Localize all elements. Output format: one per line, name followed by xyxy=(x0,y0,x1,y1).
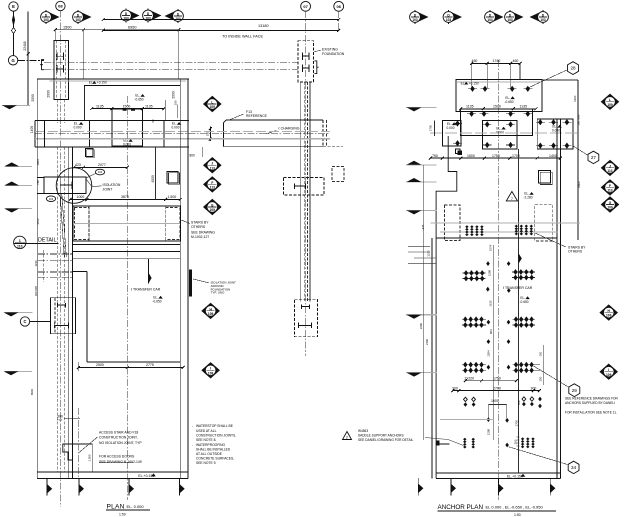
hexagon 28 xyxy=(568,62,579,75)
dim 1000 3878 1000 xyxy=(70,199,180,201)
svg-text:1484: 1484 xyxy=(36,159,40,166)
svg-text:M-1002-127: M-1002-127 xyxy=(191,235,209,239)
dim 2500 2775 xyxy=(78,367,183,369)
svg-text:1500: 1500 xyxy=(123,104,131,108)
dim 800 xyxy=(201,147,203,157)
svg-text:FOR ACCESS DOORS: FOR ACCESS DOORS xyxy=(99,455,135,459)
svg-text:-0.650: -0.650 xyxy=(504,100,513,104)
svg-text:423: 423 xyxy=(75,163,81,167)
rail bracket left xyxy=(40,60,44,70)
svg-text:109: 109 xyxy=(606,373,612,377)
svg-text:190: 190 xyxy=(174,100,178,105)
svg-text:AT ALL OUTSIDE: AT ALL OUTSIDE xyxy=(196,452,223,456)
margin flag y105 xyxy=(2,104,30,106)
right plan centerline xyxy=(497,60,499,500)
svg-text:OTHERS: OTHERS xyxy=(568,250,583,254)
pier square b xyxy=(167,172,178,184)
left inner wall xyxy=(68,147,70,478)
left plan top edge xyxy=(37,78,189,80)
svg-text:150: 150 xyxy=(538,351,542,356)
svg-text:EL. 0.000: EL. 0.000 xyxy=(127,504,145,509)
dim 1260 right xyxy=(542,79,578,81)
svg-text:1230: 1230 xyxy=(34,260,38,267)
right plan top rect xyxy=(456,79,542,111)
svg-text:1:50: 1:50 xyxy=(119,512,126,516)
svg-text:WATERSTOP SHALL BE: WATERSTOP SHALL BE xyxy=(196,424,234,428)
text EXISTING FOUNDATION xyxy=(314,50,321,52)
section markers left plan xyxy=(47,11,60,23)
svg-text:SHALL BE INSTALLED: SHALL BE INSTALLED xyxy=(196,447,231,451)
anchor pairs small right xyxy=(522,397,526,401)
beam bottom dashed continuation xyxy=(323,146,343,148)
bottom wall xyxy=(37,471,188,473)
svg-text:EL.: EL. xyxy=(461,82,466,86)
grid circle C xyxy=(20,317,29,326)
svg-text:1740: 1740 xyxy=(493,59,501,63)
svg-text:1288: 1288 xyxy=(487,428,491,435)
svg-text:REFERENCE: REFERENCE xyxy=(246,114,268,118)
gray level band xyxy=(35,131,330,133)
svg-text:103: 103 xyxy=(507,18,513,22)
right plan margin flags xyxy=(406,106,436,108)
dim 750 1500 1750 1700 1400 xyxy=(430,157,560,159)
svg-text:1000: 1000 xyxy=(77,195,85,199)
anchor cluster bottom right xyxy=(521,437,524,440)
svg-text:07: 07 xyxy=(303,4,308,9)
middle pier square xyxy=(112,109,142,146)
svg-text:2077: 2077 xyxy=(98,163,106,167)
svg-text:3878: 3878 xyxy=(121,195,129,199)
warning triangle 7 xyxy=(506,192,517,201)
dashed pit row xyxy=(73,206,181,241)
margin dim chain right plan xyxy=(423,165,425,440)
taper slant lines xyxy=(62,194,67,257)
access stair marks xyxy=(64,418,80,420)
svg-text:113: 113 xyxy=(607,189,612,193)
box edge extensions xyxy=(37,176,44,178)
svg-text:1260: 1260 xyxy=(573,95,577,102)
svg-text:1500: 1500 xyxy=(63,25,71,29)
svg-text:3152: 3152 xyxy=(36,218,40,225)
left pier block xyxy=(89,121,91,147)
svg-text:788: 788 xyxy=(36,180,40,185)
svg-text:0.000: 0.000 xyxy=(552,128,560,132)
single anchors bottom mid xyxy=(505,418,509,423)
warning triangle 2 note xyxy=(343,432,352,440)
svg-text:27: 27 xyxy=(591,155,597,160)
svg-text:2000: 2000 xyxy=(31,94,35,102)
small pier square a xyxy=(86,149,94,157)
column strip dashed down xyxy=(57,147,59,472)
svg-text:103: 103 xyxy=(540,18,546,22)
svg-text:STAIRS BY: STAIRS BY xyxy=(191,221,209,225)
band vertical x44.5 xyxy=(44,121,46,147)
svg-text:800: 800 xyxy=(190,154,196,158)
anchor cluster row2 left xyxy=(463,272,486,274)
anchor cluster row4 left xyxy=(462,364,486,366)
corner stub rect xyxy=(436,440,439,445)
svg-text:SADDLE SUPPORT ANCHORS: SADDLE SUPPORT ANCHORS xyxy=(358,434,404,438)
svg-text:2190: 2190 xyxy=(425,338,429,345)
DETAIL circle 1/110 xyxy=(14,236,26,248)
svg-text:890: 890 xyxy=(577,114,581,119)
dim line 2 (inside wall face) xyxy=(103,29,338,31)
dim 13180 xyxy=(103,19,338,21)
right side marker L/109 xyxy=(203,96,222,112)
dashed pits right plan xyxy=(445,205,461,241)
svg-text:1135: 1135 xyxy=(520,105,528,109)
svg-text:103: 103 xyxy=(43,18,49,22)
svg-text:103: 103 xyxy=(75,18,81,22)
svg-text:1,500: 1,500 xyxy=(88,454,92,461)
bottom flags right plan xyxy=(417,478,419,495)
svg-text:1750: 1750 xyxy=(492,154,500,158)
svg-text:USED AT ALL: USED AT ALL xyxy=(196,429,217,433)
svg-text:SEE DRAWING: SEE DRAWING xyxy=(191,231,215,235)
svg-text:NO ISOLATION JOINT, TYP: NO ISOLATION JOINT, TYP xyxy=(99,441,142,445)
right pier block xyxy=(163,121,165,147)
svg-text:06: 06 xyxy=(336,4,341,9)
I-beam symbols in column xyxy=(56,52,58,60)
svg-text:102: 102 xyxy=(98,170,103,174)
svg-text:TO INSIDE WALL FACE: TO INSIDE WALL FACE xyxy=(222,35,263,39)
dim 1000 xyxy=(488,404,506,406)
svg-text:1615: 1615 xyxy=(488,300,492,307)
marker G/109 xyxy=(203,199,222,215)
left strip outer wall xyxy=(36,79,38,479)
right wall xyxy=(179,79,181,479)
svg-text:1135: 1135 xyxy=(466,105,474,109)
svg-text:+0.150: +0.150 xyxy=(469,82,479,86)
transfer pit inner boundary xyxy=(86,271,88,362)
isolation joint box xyxy=(44,177,86,193)
svg-text:ACCESS STAIR AND F18: ACCESS STAIR AND F18 xyxy=(99,431,138,435)
svg-text:C: C xyxy=(23,319,26,324)
svg-text:FOUNDATION: FOUNDATION xyxy=(322,52,345,56)
svg-text:-0.650: -0.650 xyxy=(152,299,161,303)
svg-text:0.000: 0.000 xyxy=(172,126,180,130)
svg-text:22488: 22488 xyxy=(23,41,27,50)
anchor cluster row1 right xyxy=(515,225,518,228)
bottom flags left plan xyxy=(46,478,48,495)
svg-text:109: 109 xyxy=(606,314,612,318)
svg-text:ANCHOR PLAN: ANCHOR PLAN xyxy=(438,504,484,511)
svg-text:ℓ TRANSFER CAR: ℓ TRANSFER CAR xyxy=(131,287,161,291)
dim 2x220 1750 xyxy=(465,380,516,382)
svg-text:1700: 1700 xyxy=(429,124,433,131)
svg-text:1135: 1135 xyxy=(96,104,104,108)
right plan markers xyxy=(601,94,620,110)
dim 890 xyxy=(577,111,579,149)
bottom wall xyxy=(436,472,560,474)
middle pier square xyxy=(483,121,517,149)
vertical dim chain x493.6 xyxy=(493,245,495,440)
column top-left xyxy=(54,40,69,99)
existing foundation column xyxy=(298,41,314,82)
svg-text:FOR INSTALLATION SEE NOTE: FOR INSTALLATION SEE NOTE 11. xyxy=(565,410,617,414)
svg-text:W4563: W4563 xyxy=(358,429,368,433)
isolation joint bar xyxy=(189,270,192,297)
svg-text:110: 110 xyxy=(17,244,23,248)
anchor cluster row4 right xyxy=(513,364,541,366)
anchor cluster row2 right xyxy=(512,271,535,273)
anchor cluster row3 left xyxy=(462,318,486,320)
svg-text:750: 750 xyxy=(432,154,438,158)
beam centerline xyxy=(35,133,330,135)
svg-text:109: 109 xyxy=(210,208,216,212)
svg-text:460: 460 xyxy=(513,59,519,63)
dim 22488 xyxy=(27,12,29,106)
marker I/109 xyxy=(201,362,220,378)
dim 1500 6950 xyxy=(55,29,179,31)
dim row 1135 1500 1135 xyxy=(92,108,164,110)
foundation strip below xyxy=(300,82,302,301)
pit row second bottom line xyxy=(73,243,180,245)
svg-text:TYP, UNO: TYP, UNO xyxy=(211,291,225,295)
marker H/109 xyxy=(201,303,220,319)
rail line with arrow xyxy=(518,149,520,473)
grid circle 08 xyxy=(56,1,65,10)
left strip dashed rows xyxy=(38,253,73,255)
svg-text:PLAN: PLAN xyxy=(107,503,125,510)
svg-text:CONCRETE SURFACES,: CONCRETE SURFACES, xyxy=(196,457,234,461)
svg-text:103: 103 xyxy=(123,17,129,21)
svg-text:SEE DRAWING B-1002-149: SEE DRAWING B-1002-149 xyxy=(99,460,142,464)
stair zigzag xyxy=(63,444,73,460)
marker F/113 xyxy=(203,176,222,192)
svg-text:0.000: 0.000 xyxy=(74,126,82,130)
oval label 102 xyxy=(95,169,104,175)
svg-text:13180: 13180 xyxy=(258,24,269,28)
svg-text:1700: 1700 xyxy=(515,420,519,427)
section line E-G xyxy=(13,11,15,55)
svg-text:2500: 2500 xyxy=(96,363,104,367)
svg-text:ℓ CHARGING: ℓ CHARGING xyxy=(279,127,300,131)
grid line 08 xyxy=(59,11,61,507)
small dim cluster marks xyxy=(408,246,436,263)
svg-text:109: 109 xyxy=(208,371,214,375)
svg-text:0.000: 0.000 xyxy=(496,130,504,134)
svg-text:1135: 1135 xyxy=(145,104,153,108)
svg-text:109: 109 xyxy=(607,103,613,107)
grid circle G xyxy=(8,56,17,65)
plan centerline xyxy=(126,96,128,500)
svg-text:190: 190 xyxy=(576,120,580,125)
mid rect xyxy=(461,109,533,136)
right wall xyxy=(556,119,558,478)
svg-text:103: 103 xyxy=(446,18,452,22)
svg-text:7: 7 xyxy=(511,197,513,201)
svg-text:109: 109 xyxy=(607,206,613,210)
grid circle 06 xyxy=(334,1,344,11)
svg-text:TYP.: TYP. xyxy=(57,418,63,422)
anchors mid rect xyxy=(467,113,476,115)
dim 150 150 xyxy=(543,345,545,385)
svg-text:-0.650: -0.650 xyxy=(134,98,143,102)
dim 1000 ext xyxy=(487,405,489,419)
grid line 07 xyxy=(305,11,307,356)
svg-text:113: 113 xyxy=(210,166,215,170)
svg-text:E: E xyxy=(12,4,15,9)
small dashed box right xyxy=(332,167,344,182)
right plan left boundary zigzag xyxy=(436,136,457,478)
svg-text:8993: 8993 xyxy=(30,388,34,395)
svg-text:-2.280: -2.280 xyxy=(523,196,532,200)
svg-text:SEE REFERENCE DRAWINGS FOR: SEE REFERENCE DRAWINGS FOR xyxy=(565,396,619,400)
svg-text:2000: 2000 xyxy=(47,90,51,98)
svg-text:OTHERS: OTHERS xyxy=(191,225,206,229)
svg-text:435: 435 xyxy=(421,224,425,229)
svg-text:1574: 1574 xyxy=(488,244,492,251)
svg-text:28: 28 xyxy=(570,66,576,71)
svg-text:113: 113 xyxy=(607,169,612,173)
svg-text:29: 29 xyxy=(572,388,578,393)
svg-text:113: 113 xyxy=(210,186,215,190)
svg-text:34: 34 xyxy=(571,465,577,470)
svg-text:JOINT: JOINT xyxy=(103,187,113,191)
wire G centerline xyxy=(18,59,44,61)
column strip below xyxy=(57,99,59,123)
svg-text:6950: 6950 xyxy=(128,25,136,29)
svg-text:103: 103 xyxy=(487,18,493,22)
svg-text:2000: 2000 xyxy=(172,91,176,99)
band vertical x44.5 xyxy=(44,121,46,147)
svg-text:1400: 1400 xyxy=(549,154,557,158)
section markers right plan xyxy=(416,11,429,23)
svg-text:150: 150 xyxy=(538,376,542,381)
svg-text:08: 08 xyxy=(58,4,63,9)
svg-text:1288: 1288 xyxy=(488,269,492,276)
svg-text:1230: 1230 xyxy=(427,250,431,257)
anchor pairs small left xyxy=(464,397,468,401)
svg-text:700: 700 xyxy=(517,400,521,405)
svg-text:103: 103 xyxy=(412,18,418,22)
rail bracket right xyxy=(314,61,318,74)
foundation box low xyxy=(295,299,318,337)
svg-text:ℓ TRANSFER CAR: ℓ TRANSFER CAR xyxy=(503,286,533,290)
svg-text:1500: 1500 xyxy=(493,105,501,109)
svg-text:2775: 2775 xyxy=(146,363,154,367)
svg-text:109: 109 xyxy=(210,105,216,109)
marker J/113 xyxy=(203,157,222,173)
svg-text:300 805: 300 805 xyxy=(34,286,38,297)
svg-text:2290: 2290 xyxy=(419,322,423,329)
svg-text:SEE NOTE 9.: SEE NOTE 9. xyxy=(196,461,216,465)
svg-text:EL 0.000 , EL.-0.650 , EL.-0.: EL 0.000 , EL.-0.650 , EL.-0.950 xyxy=(486,505,544,510)
dim 190 xyxy=(209,127,211,142)
svg-text:2: 2 xyxy=(346,436,348,440)
room horizontal lines y251/259 xyxy=(73,251,181,253)
left margin flags xyxy=(5,165,32,167)
oval label 103 xyxy=(46,196,55,202)
svg-text:-0.650: -0.650 xyxy=(519,300,528,304)
svg-text:460: 460 xyxy=(472,59,478,63)
svg-text:1500: 1500 xyxy=(467,154,475,158)
big pit square xyxy=(538,171,550,183)
svg-text:+0.150: +0.150 xyxy=(97,81,107,85)
crane rail centerlines xyxy=(44,61,298,63)
svg-text:G: G xyxy=(11,58,14,63)
svg-text:ANCHORS SUPPLIED BY DANELI: ANCHORS SUPPLIED BY DANELI xyxy=(565,401,615,405)
anchor cluster bottom left xyxy=(463,438,466,441)
svg-text:DETAIL: DETAIL xyxy=(38,238,56,244)
svg-text:SEE DANIELI DRAWING FOR DE: SEE DANIELI DRAWING FOR DETAIL xyxy=(358,438,413,442)
svg-text:EL.: EL. xyxy=(89,81,94,85)
dim 460 1740 460 xyxy=(472,62,520,64)
anchor cluster row3 right xyxy=(513,318,536,320)
svg-text:SEE NOTE 8.: SEE NOTE 8. xyxy=(196,438,216,442)
grid circle 07 xyxy=(301,1,311,11)
anchor cluster row1 left xyxy=(465,225,468,228)
hexagon 27 xyxy=(588,151,599,163)
lower-left machine box xyxy=(50,298,75,334)
svg-text:103: 103 xyxy=(49,197,54,201)
svg-text:984: 984 xyxy=(489,329,493,334)
svg-text:103: 103 xyxy=(145,17,151,21)
svg-text:1400: 1400 xyxy=(30,126,34,134)
black keyway square xyxy=(458,151,463,156)
dim row 1135 1500 1135 right plan xyxy=(461,108,536,110)
dim 4500 xyxy=(155,147,157,200)
hexagon 29 xyxy=(569,384,580,397)
svg-text:CONSTRUCTION JOINT,: CONSTRUCTION JOINT, xyxy=(99,436,138,440)
right pier rect xyxy=(537,119,573,149)
svg-text:2x220: 2x220 xyxy=(465,377,475,381)
svg-text:WATERPROOFING: WATERPROOFING xyxy=(196,443,226,447)
svg-text:2700: 2700 xyxy=(493,386,501,390)
svg-text:109: 109 xyxy=(208,312,214,316)
foundation box mid xyxy=(283,178,324,196)
svg-text:0.000: 0.000 xyxy=(447,126,455,130)
svg-text:1750: 1750 xyxy=(493,377,501,381)
hexagon 34 xyxy=(568,461,579,473)
anchors top rect xyxy=(468,88,477,90)
svg-text:CONSTRUCTION JOINTS,: CONSTRUCTION JOINTS, xyxy=(196,433,236,437)
beam band left plan xyxy=(35,120,112,122)
dim 300 2700 300 xyxy=(453,390,540,392)
left pier rect xyxy=(442,120,461,146)
charging beam xyxy=(224,120,323,123)
upper room verticals xyxy=(85,86,181,121)
svg-text:1:50: 1:50 xyxy=(514,513,521,517)
detail circle xyxy=(56,168,92,204)
svg-text:1284: 1284 xyxy=(487,350,491,357)
svg-text:4500: 4500 xyxy=(151,175,155,183)
svg-text:1,500: 1,500 xyxy=(168,195,177,199)
svg-text:300: 300 xyxy=(531,386,537,390)
svg-text:1000: 1000 xyxy=(491,399,499,403)
grid circle E xyxy=(9,2,18,11)
gray level line xyxy=(430,132,580,134)
dim 423 2077 xyxy=(74,166,127,168)
svg-text:EL.+0.150: EL.+0.150 xyxy=(507,474,523,478)
svg-text:300: 300 xyxy=(452,386,458,390)
transfer car arrow xyxy=(148,273,151,284)
